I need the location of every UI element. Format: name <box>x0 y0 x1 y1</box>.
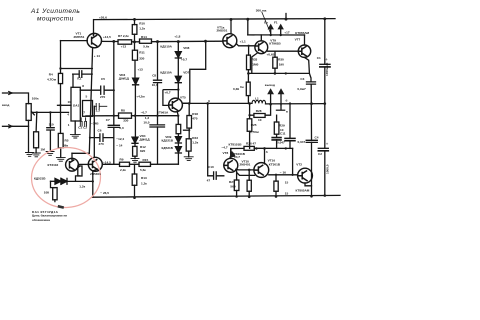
svg-text:+4,2м: +4,2м <box>136 94 145 98</box>
svg-text:10: 10 <box>68 100 72 104</box>
svg-text:+ 14: + 14 <box>94 54 100 58</box>
svg-text:− 14: − 14 <box>116 143 122 147</box>
svg-text:470: 470 <box>192 117 197 121</box>
svg-text:−4,7: −4,7 <box>222 145 228 149</box>
svg-text:+13: +13 <box>121 44 127 48</box>
svg-text:КД521Б: КД521Б <box>34 176 46 180</box>
svg-text:R23: R23 <box>192 136 198 140</box>
svg-text:КТ8101В: КТ8101В <box>229 143 243 147</box>
svg-text:1000,0: 1000,0 <box>326 164 330 174</box>
svg-text:330: 330 <box>123 118 128 122</box>
svg-text:R18: R18 <box>192 112 198 116</box>
svg-text:+0,65: +0,65 <box>267 53 275 57</box>
svg-text:R33: R33 <box>252 58 258 62</box>
svg-text:А1 Усилитель: А1 Усилитель <box>30 8 80 15</box>
svg-text:+1,1: +1,1 <box>240 40 246 44</box>
svg-text:С8: С8 <box>152 74 156 78</box>
svg-text:0,9м7: 0,9м7 <box>297 87 306 91</box>
svg-text:R29: R29 <box>279 123 285 127</box>
svg-text:0н: 0н <box>240 85 244 89</box>
svg-text:С5: С5 <box>101 77 105 81</box>
svg-text:мощности: мощности <box>37 16 74 23</box>
svg-text:1М: 1М <box>41 148 46 152</box>
svg-text:1,2к: 1,2к <box>139 27 145 31</box>
svg-text:270: 270 <box>100 95 105 99</box>
svg-text:Д9И1Д: Д9И1Д <box>119 77 130 81</box>
svg-text:вход: вход <box>2 103 9 107</box>
svg-text:36к: 36к <box>63 143 68 147</box>
svg-text:2N5401: 2N5401 <box>90 172 101 176</box>
svg-text:КД521Б: КД521Б <box>162 146 174 150</box>
svg-text:КД521В: КД521В <box>162 139 174 143</box>
svg-text:R11: R11 <box>139 51 145 55</box>
svg-text:С2: С2 <box>318 152 322 156</box>
svg-text:270: 270 <box>99 142 104 146</box>
svg-text:R7 2,2к: R7 2,2к <box>118 34 129 38</box>
svg-text:R27: R27 <box>229 180 235 184</box>
svg-text:VT2: VT2 <box>296 162 302 166</box>
svg-text:5: 5 <box>86 95 88 99</box>
svg-text:КТ865АМ: КТ865АМ <box>295 31 309 35</box>
svg-text:0,1: 0,1 <box>77 77 82 81</box>
svg-text:300 ma: 300 ma <box>256 8 267 12</box>
svg-text:Цепь балансировки не: Цепь балансировки не <box>32 214 67 218</box>
svg-text:4,7Ом: 4,7Ом <box>250 130 260 134</box>
svg-text:820: 820 <box>140 149 145 153</box>
svg-text:КД510А: КД510А <box>160 70 172 74</box>
svg-text:+14,5: +14,5 <box>103 35 111 39</box>
svg-text:КТ805АМ: КТ805АМ <box>296 189 310 193</box>
svg-text:С6: С6 <box>98 128 102 132</box>
svg-text:R26 47: R26 47 <box>246 141 256 145</box>
svg-text:R8: R8 <box>121 109 125 113</box>
svg-text:+0,7: +0,7 <box>181 57 187 61</box>
svg-text:КТ301Б: КТ301Б <box>269 163 281 167</box>
svg-text:15: 15 <box>285 181 289 185</box>
svg-text:КТ3102: КТ3102 <box>48 163 59 167</box>
svg-text:б: б <box>266 150 268 154</box>
svg-text:Д9И1Д: Д9И1Д <box>140 138 151 142</box>
svg-text:190: 190 <box>279 63 284 67</box>
svg-text:2N5401: 2N5401 <box>240 162 251 166</box>
svg-text:С1: С1 <box>317 56 321 60</box>
svg-text:5,6к: 5,6к <box>140 168 146 172</box>
svg-text:3,3: 3,3 <box>96 108 101 112</box>
svg-text:С10: С10 <box>208 165 214 169</box>
svg-text:560: 560 <box>230 184 235 188</box>
svg-text:КТ961А: КТ961А <box>157 111 169 115</box>
svg-text:8: 8 <box>82 84 84 88</box>
svg-text:0,047: 0,047 <box>277 141 285 145</box>
svg-text:+17: +17 <box>284 31 290 35</box>
svg-text:−0,7: −0,7 <box>141 111 147 115</box>
svg-text:10,0: 10,0 <box>152 83 158 87</box>
svg-text:10,0: 10,0 <box>143 120 149 124</box>
svg-text:1,2к: 1,2к <box>141 182 147 186</box>
svg-text:110: 110 <box>49 122 54 126</box>
svg-text:+0,7: +0,7 <box>165 91 171 95</box>
svg-text:в: в <box>286 110 288 114</box>
svg-text:2N5551: 2N5551 <box>74 35 85 39</box>
svg-text:10: 10 <box>258 118 262 122</box>
svg-text:2,2к: 2,2к <box>120 168 126 172</box>
svg-text:С11: С11 <box>280 132 286 136</box>
svg-text:+: + <box>326 142 329 147</box>
svg-text:R12: R12 <box>140 145 146 149</box>
svg-text:С4: С4 <box>315 136 319 140</box>
svg-text:14,7: 14,7 <box>234 155 240 159</box>
svg-text:−14В: −14В <box>91 122 99 126</box>
svg-text:+1,8: +1,8 <box>174 35 180 39</box>
svg-text:R4: R4 <box>49 72 53 76</box>
svg-text:б: б <box>208 99 210 103</box>
svg-text:1М0: 1М0 <box>252 63 258 67</box>
svg-text:R28: R28 <box>256 109 262 113</box>
svg-text:б: б <box>286 99 288 103</box>
svg-text:−12,4: −12,4 <box>116 137 124 141</box>
svg-text:VT8: VT8 <box>223 151 229 155</box>
svg-text:КД510А: КД510А <box>160 44 172 48</box>
svg-text:R9: R9 <box>120 158 124 162</box>
svg-text:R14: R14 <box>141 35 147 39</box>
svg-text:VD8: VD8 <box>183 46 189 50</box>
svg-text:С3: С3 <box>300 77 304 81</box>
svg-text:+: + <box>325 57 328 62</box>
svg-text:обозначена: обозначена <box>32 218 50 222</box>
svg-text:47: 47 <box>207 179 211 183</box>
svg-text:4: 4 <box>67 112 69 116</box>
svg-text:VT5: VT5 <box>180 96 186 100</box>
svg-text:100к: 100к <box>32 96 39 100</box>
svg-text:15: 15 <box>285 191 289 195</box>
svg-text:выход: выход <box>265 83 275 87</box>
svg-text:L1: L1 <box>255 97 259 101</box>
svg-text:− 16: − 16 <box>280 170 286 174</box>
svg-text:R5: R5 <box>65 138 69 142</box>
svg-text:R10: R10 <box>139 22 145 26</box>
svg-text:DA1: DA1 <box>73 104 79 108</box>
svg-text:VT7: VT7 <box>295 38 301 42</box>
svg-text:+13: +13 <box>138 68 144 72</box>
svg-text:R30: R30 <box>278 58 284 62</box>
svg-text:F1: F1 <box>274 20 278 24</box>
svg-text:− 26,5: − 26,5 <box>100 191 109 195</box>
svg-text:1,2к: 1,2к <box>79 184 85 188</box>
svg-text:С1 С2: С1 С2 <box>78 126 87 130</box>
svg-text:VD7: VD7 <box>183 70 189 74</box>
svg-text:Е+: Е+ <box>264 20 268 24</box>
svg-text:5,6к: 5,6к <box>143 44 149 48</box>
svg-text:2,0: 2,0 <box>119 126 124 130</box>
svg-text:1,2к: 1,2к <box>192 141 198 145</box>
svg-text:10К: 10К <box>44 191 49 195</box>
svg-text:КТ961В: КТ961В <box>269 41 281 45</box>
svg-text:R25: R25 <box>251 123 257 127</box>
svg-text:4,7Ом: 4,7Ом <box>47 77 57 81</box>
svg-text:0,39: 0,39 <box>233 87 239 91</box>
svg-text:С7: С7 <box>106 118 110 122</box>
svg-text:+26,6: +26,6 <box>99 15 107 19</box>
svg-text:R13: R13 <box>141 176 147 180</box>
svg-text:2N5551: 2N5551 <box>217 29 228 33</box>
svg-text:7: 7 <box>83 110 85 114</box>
svg-text:R15: R15 <box>143 158 149 162</box>
svg-text:−14,5: −14,5 <box>103 160 111 164</box>
svg-text:330: 330 <box>139 57 144 61</box>
svg-text:1: 1 <box>68 123 70 127</box>
svg-text:1000мкФ: 1000мкФ <box>325 62 329 76</box>
svg-text:0,047: 0,047 <box>298 140 306 144</box>
